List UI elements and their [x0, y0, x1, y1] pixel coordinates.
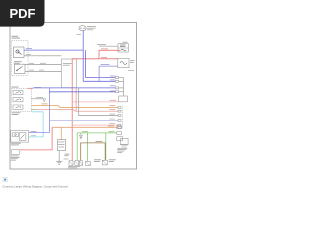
- splice arrow symbol: [43, 99, 46, 102]
- right motor component: [120, 139, 128, 148]
- switch A2 label: [14, 61, 22, 63]
- wire BLU to right pin: [33, 87, 115, 89]
- wire BRN bridge: [81, 143, 106, 160]
- motor labels: [117, 148, 127, 153]
- wire RED main: horizontal to junction: [72, 58, 99, 60]
- sunroof switch component: [57, 140, 65, 151]
- lamp R1 label: [130, 60, 135, 63]
- extra right box: [117, 137, 123, 141]
- ladder dashed bus: [122, 106, 124, 129]
- connector C1 text: [68, 166, 80, 168]
- wire BLU from switch A1 to fuse drop: [24, 49, 83, 51]
- wire ORN from junction block: [31, 105, 118, 107]
- wire LAV branch: [49, 120, 118, 122]
- connector C1 labels: [65, 154, 70, 156]
- junction block bottom label: [12, 112, 21, 115]
- svg-text:Courtesy Lamps Wiring Diagram,: Courtesy Lamps Wiring Diagram, Coupe wit…: [2, 184, 68, 188]
- wire VIO main vertical: [48, 88, 50, 133]
- wire RED to lamp R0: [99, 49, 121, 51]
- wire VIO lamp R1 return horizontal: [99, 65, 118, 67]
- wire RED long vertical: [71, 59, 73, 161]
- small box: trunk switch: [11, 150, 20, 155]
- lower ladder pins: [118, 107, 121, 129]
- 4-pin connector pins: [115, 77, 118, 93]
- connector cell 2: [13, 98, 23, 102]
- lamp R1: [118, 58, 129, 67]
- wire BLU branch b2 horizontal to pin: [85, 77, 115, 79]
- wire BLU branch b1 vertical: [82, 50, 84, 81]
- ground distribution label text: [12, 36, 21, 39]
- wire GRN vertical 3: [105, 133, 107, 160]
- connector bus: [119, 78, 124, 96]
- dashed box: driver door switch assembly: [12, 41, 29, 76]
- door switch cell 1: [13, 133, 19, 137]
- wire GRY A1 to control unit: [24, 55, 61, 57]
- wire BLU branch b2 vertical: [84, 50, 86, 77]
- wire GRY from control unit bottom to right: [79, 88, 118, 116]
- wire CYN label: [31, 134, 36, 137]
- wire label WHT: [77, 33, 82, 36]
- diagram border frame: [10, 23, 137, 169]
- wire ORN drop to sunroof switch: [60, 127, 62, 139]
- door switch box: [11, 131, 29, 143]
- wire GRY stub with splice arrow: [31, 98, 43, 100]
- lamp R0 wire label: [97, 44, 106, 47]
- wire CYN from junction block: [29, 112, 43, 137]
- door switch labels: [11, 143, 21, 146]
- wire GRN vertical 2: [87, 133, 89, 161]
- right module box: [119, 96, 128, 102]
- lamp R0: [118, 44, 128, 52]
- wire VIO to door switch box: [29, 132, 50, 134]
- wire GRN vertical 1: [76, 133, 78, 160]
- switch A1: [14, 47, 25, 58]
- wire GRY A2 to control unit pin2: [25, 64, 61, 66]
- connector cell 1: [13, 90, 23, 94]
- lamp R0 label: [123, 41, 128, 44]
- svg-text:PDF: PDF: [10, 6, 36, 21]
- ground G402: [56, 161, 62, 164]
- wire label: [26, 47, 32, 50]
- wire BLU fuse vertical drop: [82, 31, 84, 50]
- wire BLU branch to pin4: [49, 91, 115, 93]
- wire GRY into lamp R0: [104, 45, 118, 47]
- connector cell 3: [13, 105, 23, 109]
- wire VIO lamp R1 return vertical: [98, 66, 100, 81]
- wire RED stub from control unit bottom: [75, 88, 77, 112]
- wire GRN main horizontal: [77, 132, 117, 134]
- wire BLK switch to ground: [58, 151, 60, 162]
- wire RED to small box: [20, 127, 52, 150]
- wire GRY A2 to control unit pin3: [25, 70, 61, 72]
- wire BLU branch b1 horizontal to pin: [83, 80, 115, 82]
- junction block label: [12, 86, 19, 89]
- fuse label: [87, 26, 96, 30]
- wire ORN lower run: [52, 126, 118, 128]
- door switch cell 2: [19, 133, 26, 141]
- PDF badge: [0, 0, 45, 27]
- wire RED/BLU label segment: [28, 87, 34, 89]
- control unit label: [63, 63, 72, 66]
- connector C3: [102, 160, 107, 165]
- wire GRN/GRY to red jog: [31, 109, 35, 111]
- fuse F23: [79, 26, 86, 31]
- trunk switch labels: [11, 156, 20, 161]
- wire PNK ladder line: [72, 124, 118, 126]
- wire PNK branch to right module: [72, 101, 119, 103]
- control unit box: [61, 59, 76, 88]
- connector C3 labels: [94, 159, 116, 161]
- connector C1: [69, 161, 83, 166]
- diode symbol on green net: [79, 133, 82, 140]
- wire RED to lamp R1: [99, 58, 118, 60]
- pin for pink 127 wire: [117, 126, 122, 129]
- wire RED junction riser: [98, 50, 100, 59]
- caption icon: [3, 177, 7, 181]
- dashed box: junction connector block: [12, 88, 32, 111]
- connector C2: [86, 161, 91, 165]
- pin for green wire: [117, 132, 122, 135]
- switch A2: [15, 64, 26, 73]
